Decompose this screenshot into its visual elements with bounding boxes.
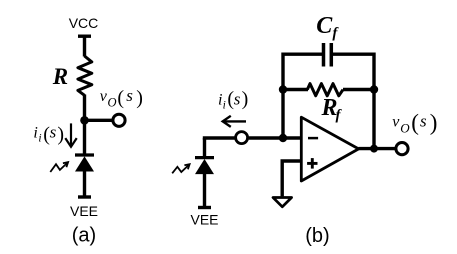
svg-text:VCC: VCC <box>69 15 99 31</box>
svg-text:R: R <box>52 64 68 89</box>
svg-text:s: s <box>126 86 133 105</box>
svg-text:v: v <box>392 114 400 131</box>
svg-text:VEE: VEE <box>190 212 218 228</box>
svg-text:C: C <box>316 13 333 39</box>
svg-text:): ) <box>242 88 249 110</box>
svg-text:s: s <box>420 112 427 131</box>
svg-text:O: O <box>400 121 410 136</box>
svg-text:VEE: VEE <box>70 203 98 219</box>
svg-text:O: O <box>108 96 117 110</box>
svg-text:(b): (b) <box>305 225 329 247</box>
svg-text:): ) <box>430 110 438 135</box>
svg-text:i: i <box>223 100 226 112</box>
svg-text:(: ( <box>117 87 124 109</box>
svg-text:i: i <box>38 133 41 145</box>
svg-text:): ) <box>57 124 64 146</box>
svg-text:s: s <box>234 90 241 109</box>
svg-text:s: s <box>50 123 57 142</box>
svg-text:): ) <box>136 87 143 109</box>
svg-text:(a): (a) <box>72 225 96 247</box>
svg-text:i: i <box>33 125 37 142</box>
svg-text:(: ( <box>411 110 419 135</box>
